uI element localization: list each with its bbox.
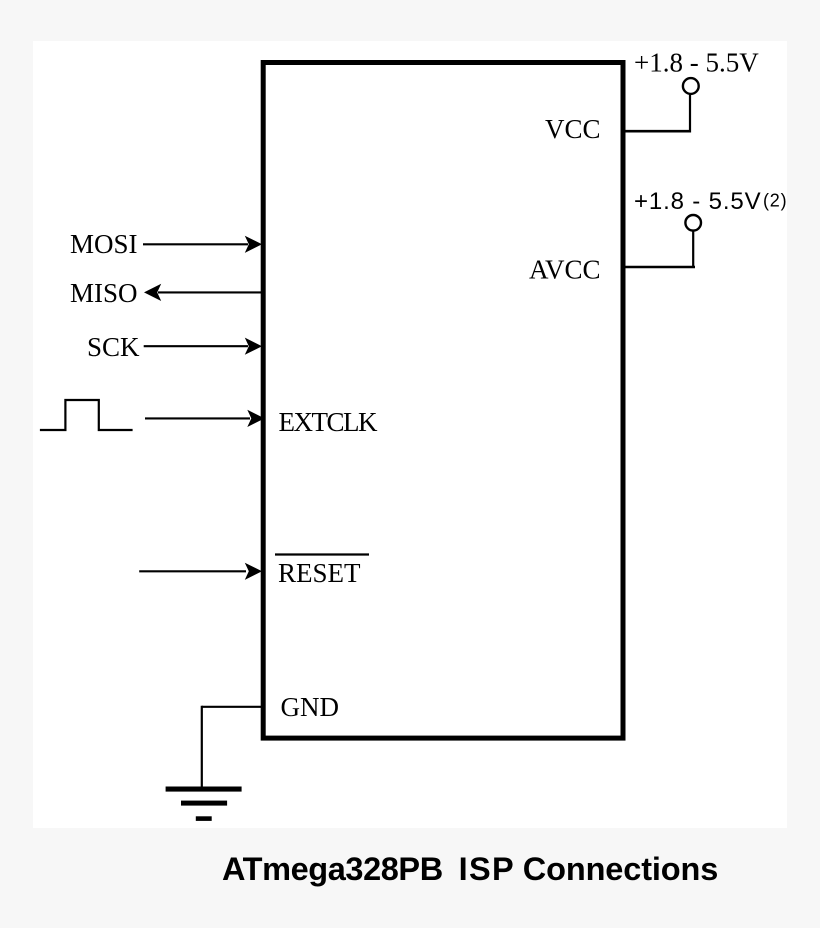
svg-text:MOSI: MOSI bbox=[70, 229, 138, 259]
svg-text:RESET: RESET bbox=[278, 558, 361, 588]
wire MOSI bbox=[143, 243, 248, 245]
svg-text:GND: GND bbox=[281, 692, 340, 722]
terminal circle AVCC supply bbox=[685, 215, 701, 231]
pin label RESET with overline bbox=[275, 555, 369, 589]
arrowhead MISO (out of IC) bbox=[144, 284, 161, 301]
arrowhead SCK (into IC) bbox=[245, 338, 262, 355]
wire MISO bbox=[158, 291, 263, 293]
svg-text:VCC: VCC bbox=[545, 114, 601, 144]
wire VCC terminal stem bbox=[689, 94, 691, 133]
clock pulse waveform symbol bbox=[40, 400, 133, 430]
svg-text:AVCC: AVCC bbox=[529, 255, 601, 285]
svg-text:MISO: MISO bbox=[70, 278, 138, 308]
wire AVCC pin to terminal bbox=[623, 266, 695, 269]
svg-text:+1.8 - 5.5V: +1.8 - 5.5V bbox=[634, 188, 761, 215]
caption title ATmega328PB ISP Connections bbox=[222, 851, 718, 887]
terminal circle VCC supply bbox=[683, 78, 699, 94]
wire RESET bbox=[139, 570, 246, 572]
wire AVCC terminal stem bbox=[692, 231, 694, 268]
label +1.8 - 5.5V(2) (AVCC supply) bbox=[634, 188, 787, 215]
IC U1 ATmega328PB body bbox=[263, 63, 623, 739]
wire EXTCLK bbox=[145, 417, 250, 419]
wire GND horizontal bbox=[202, 706, 263, 708]
wire GND vertical bbox=[201, 706, 203, 787]
wire VCC pin to terminal bbox=[623, 130, 691, 133]
svg-text:Connections: Connections bbox=[523, 851, 718, 887]
svg-text:+1.8 - 5.5V: +1.8 - 5.5V bbox=[634, 47, 759, 77]
wire SCK bbox=[144, 345, 248, 347]
arrowhead RESET (into IC) bbox=[245, 563, 262, 580]
svg-text:SCK: SCK bbox=[87, 332, 140, 362]
ground symbol bbox=[166, 787, 242, 821]
arrowhead MOSI (into IC) bbox=[245, 236, 262, 253]
svg-text:(2): (2) bbox=[763, 191, 787, 211]
svg-text:ISP: ISP bbox=[459, 851, 515, 887]
svg-text:ATmega328PB: ATmega328PB bbox=[222, 851, 443, 887]
svg-text:EXTCLK: EXTCLK bbox=[279, 407, 378, 437]
arrowhead EXTCLK (into IC) bbox=[247, 410, 264, 427]
